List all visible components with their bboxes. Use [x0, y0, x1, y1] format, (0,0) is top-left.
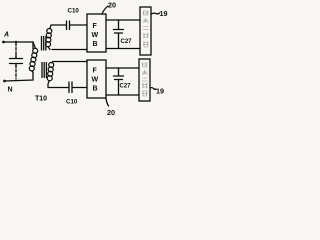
capacitor C27 lower lead	[118, 68, 120, 76]
svg-text:19: 19	[156, 87, 164, 96]
wire lower secondary top to FWB2	[53, 61, 87, 63]
svg-text:W: W	[92, 32, 99, 39]
wire FWB2 to LED2 bottom	[106, 94, 139, 96]
wire dashed lower lead of line capacitor	[15, 65, 17, 79]
capacitor across mains (bottom plate)	[10, 64, 23, 68]
wire C10 lower to FWB2	[73, 87, 88, 89]
wire FWB1 to LED1 top	[106, 19, 140, 21]
svg-text:F: F	[93, 23, 98, 30]
wire FWB1 to LED1 bottom	[106, 48, 140, 50]
wire dashed upper lead of line capacitor	[15, 43, 17, 57]
svg-text:C27: C27	[120, 84, 132, 90]
svg-text:N: N	[8, 87, 13, 94]
svg-text:B: B	[93, 41, 98, 48]
capacitor C27 lower plates	[114, 76, 124, 80]
svg-text:W: W	[92, 77, 99, 84]
capacitor C10 lower plates	[69, 82, 72, 93]
junction dot on A wire	[15, 41, 17, 43]
svg-text:20: 20	[107, 108, 115, 117]
svg-text:F: F	[93, 68, 98, 75]
leader line for label 20 lower	[106, 98, 109, 106]
rectifier block FWB1	[87, 14, 106, 52]
transformer T10 lower secondary winding	[47, 62, 54, 88]
LED block 1	[140, 7, 151, 55]
rectifier block FWB2	[87, 60, 106, 98]
svg-text:C10: C10	[68, 8, 80, 15]
wire FWB2 to LED2 top	[106, 67, 139, 69]
node N terminal dot	[3, 80, 6, 83]
transformer T10 upper secondary winding	[46, 25, 52, 50]
svg-text:20: 20	[108, 1, 116, 10]
node A terminal dot	[2, 41, 5, 44]
wire upper secondary bottom to FWB1	[52, 49, 87, 51]
wire upper secondary top to C10	[52, 24, 67, 26]
svg-text:C10: C10	[66, 98, 78, 105]
LED block 2	[139, 59, 150, 101]
wire N to transformer	[5, 72, 34, 81]
transformer T10 lower core	[42, 63, 46, 78]
capacitor C27 lower lead lower	[118, 80, 120, 95]
capacitor C27 upper plates	[114, 30, 124, 34]
svg-text:19: 19	[160, 9, 168, 18]
capacitor across mains (top plate)	[10, 55, 23, 59]
LED block 2 text (Chinese: light emitting diode)	[142, 63, 148, 96]
svg-text:A: A	[3, 32, 9, 39]
svg-text:T10: T10	[35, 96, 47, 103]
wire lower secondary bottom to C10 lower	[49, 87, 69, 89]
leader line for label 20 upper	[102, 6, 108, 14]
svg-text:C27: C27	[121, 39, 133, 45]
capacitor C10 upper plates	[67, 21, 70, 30]
transformer T10 upper core	[42, 37, 46, 51]
leader line for label 19 lower	[150, 88, 156, 90]
capacitor C27 upper lead	[118, 20, 120, 29]
wire A to transformer	[4, 42, 34, 49]
capacitor C27 upper lead lower	[118, 34, 120, 49]
transformer T10 primary winding	[29, 42, 37, 72]
wire C10 to FWB1	[70, 24, 87, 26]
svg-text:B: B	[93, 86, 98, 93]
leader line for label 19 upper	[151, 13, 160, 14]
LED block 1 text (Chinese: light emitting diode)	[143, 11, 149, 47]
